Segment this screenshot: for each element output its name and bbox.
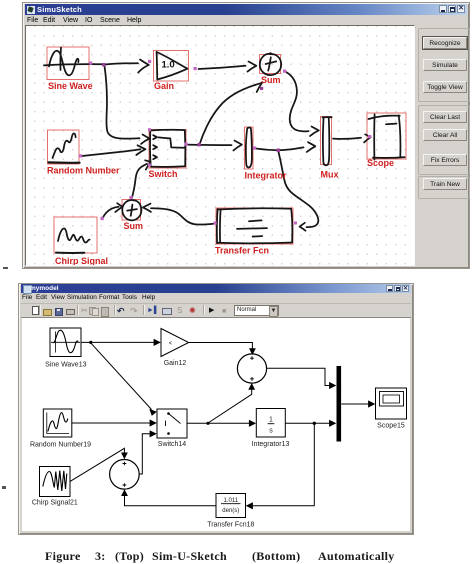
block: Random Number19 — [43, 409, 72, 437]
recognition box: Transfer Fcn — [216, 208, 293, 244]
menu bar — [25, 15, 467, 28]
sketch: Mux block — [323, 116, 332, 118]
wire: Sum (bottom) output up to Switch14 input 3 — [139, 434, 151, 474]
sketch canvas — [25, 25, 415, 266]
svg-text:Gain12: Gain12 — [164, 360, 187, 367]
toolbar icon: debug (red) — [189, 307, 199, 314]
svg-text:Gain: Gain — [154, 81, 174, 91]
toolbar icon: paste (disabled) — [101, 307, 109, 317]
block: Mux (black bar) — [337, 366, 342, 442]
wire: Mux to Scope — [333, 138, 361, 139]
svg-text:1.011: 1.011 — [224, 498, 239, 504]
title bar — [21, 284, 411, 293]
sketch: Sine Wave source block — [44, 64, 104, 65]
wire: Sum output curving down to Mux input 1 — [286, 72, 309, 131]
connection marker: Random Number output — [79, 154, 82, 157]
toolbar icon: cut (disabled) — [81, 307, 88, 314]
svg-text:Sine Wave13: Sine Wave13 — [45, 362, 86, 369]
junction on Sine Wave13 output — [89, 341, 92, 344]
toolbar icon: print — [66, 309, 75, 315]
wire: Transfer Fcn output to Sum (bottom) — [151, 208, 216, 224]
toolbar icon: new model — [32, 306, 39, 315]
wire: Sine Wave to Gain — [105, 63, 138, 64]
connection marker: Transfer Fcn output — [214, 222, 217, 225]
wire: junction diagonal to Switch14 input 1 — [91, 343, 152, 409]
svg-text:Switch14: Switch14 — [158, 441, 187, 448]
arrowhead: into Mux input 1 — [329, 382, 336, 389]
right button panel — [416, 27, 468, 267]
block: Gain12 triangle — [161, 329, 189, 357]
svg-text:Transfer Fcn18: Transfer Fcn18 — [207, 522, 254, 529]
title bar — [25, 4, 467, 15]
block: Integrator13 — [256, 409, 285, 438]
recognition box: Gain — [154, 51, 189, 82]
svg-text:s: s — [269, 428, 273, 435]
sketch: Switch block — [150, 130, 185, 167]
connection marker: junction after Sine Wave — [102, 63, 105, 66]
connection marker: Integrator output — [253, 147, 256, 150]
svg-text:Sum: Sum — [261, 75, 281, 85]
sketch: Sum block (bottom circle with plus) — [122, 200, 141, 220]
arrowhead: into Gain12 — [154, 339, 161, 346]
recognition box: Sum (top) — [260, 55, 281, 74]
sketch: Gain block (triangle with value) — [156, 52, 159, 79]
svg-text:Sine Wave: Sine Wave — [48, 81, 93, 91]
wire: Mux output to Scope15 — [341, 403, 369, 405]
svg-text:Mux: Mux — [321, 170, 339, 180]
stray margin marks from adjacent page column — [3, 267, 8, 269]
connection marker: Gain output — [194, 67, 197, 70]
wire: Sum output right then down into Mux input 1 — [267, 368, 331, 385]
svg-text:Sum: Sum — [124, 221, 144, 231]
toolbar icon: model browser — [162, 308, 172, 315]
toolbar icon: stop (disabled) — [222, 307, 230, 314]
wire: junction curving up to Sum second input — [200, 85, 256, 145]
toolbar icon: library browser — [147, 307, 157, 314]
svg-text:<: < — [169, 341, 173, 347]
toolbar icon: signal display (disabled) — [177, 307, 185, 314]
toolbar combo: simulation mode Normal — [234, 305, 279, 316]
connection marker: Sum bottom top port — [130, 196, 133, 199]
sketch: Sum block (top circle with plus) — [260, 53, 281, 75]
window: mymodel (Simulink) — [18, 283, 414, 535]
wire: Transfer Fcn18 output left then up to Sum bottom port — [125, 496, 217, 506]
arrowhead: into Sum bottom-circle bottom port (from Transfer Fcn) — [121, 489, 128, 496]
connection marker: Switch output — [185, 143, 188, 146]
block: Sine Wave13 — [50, 328, 81, 357]
toolbar icon: redo (disabled) — [130, 307, 140, 314]
block: Transfer Fcn18 — [216, 494, 246, 518]
svg-text:Transfer Fcn: Transfer Fcn — [215, 246, 269, 256]
junction after Switch14 — [206, 422, 209, 425]
wire: Switch14 output to Integrator13 — [187, 422, 250, 424]
connection marker: Sine Wave output — [89, 62, 92, 65]
sketch: Chirp Signal source block — [58, 228, 90, 242]
toolbar icon: save — [55, 308, 63, 316]
recognition box: Sum (bottom) — [122, 200, 141, 221]
wire: Integrator13 output to Mux input 2 — [285, 422, 330, 424]
junction after Integrator13 — [313, 422, 316, 425]
wire: Random Number19 to Switch14 input 2 — [72, 422, 152, 424]
recognition box: Switch — [149, 130, 186, 169]
recognition box: Mux — [321, 117, 332, 165]
toolbar — [21, 303, 411, 318]
recognition box: Sine Wave — [47, 47, 89, 80]
block: Chirp Signal21 — [40, 467, 71, 497]
svg-text:Scope: Scope — [367, 158, 394, 168]
wire: Random Number to Switch input 2 — [82, 149, 141, 156]
arrowhead: into Switch14 input 1 — [149, 409, 157, 416]
arrowhead: into Transfer Fcn18 (pointing left) — [246, 502, 253, 509]
toolbar icon: undo — [117, 307, 127, 314]
wire: Gain12 output right then down to Sum — [189, 343, 253, 350]
connection marker: junction after Integrator — [277, 149, 280, 152]
svg-text:Integrator13: Integrator13 — [252, 441, 290, 448]
recognition box: Random Number — [48, 130, 80, 164]
connection marker: junction after Switch — [198, 143, 201, 146]
wire: Gain to Sum — [199, 66, 246, 69]
window: SimuSketch application — [22, 2, 470, 269]
svg-text:den(s): den(s) — [222, 508, 239, 514]
block: Switch14 — [157, 409, 187, 438]
wire: junction diagonal up to Sum bottom input — [208, 390, 252, 424]
sketch: Random Number source block — [53, 133, 76, 158]
menu bar — [21, 293, 411, 304]
connection marker: Switch bottom-left corner — [148, 164, 151, 167]
connection marker: Sum output — [283, 70, 286, 73]
model canvas — [22, 318, 410, 531]
arrowhead: into Switch14 input 3 — [150, 430, 157, 437]
svg-text:1: 1 — [269, 417, 273, 424]
connection marker: Switch top-left corner — [148, 128, 151, 131]
svg-text:Random Number19: Random Number19 — [30, 442, 91, 449]
svg-text:Chirp Signal21: Chirp Signal21 — [32, 500, 78, 507]
arrowhead: into Integrator13 — [249, 420, 256, 427]
wire: Chirp Signal21 diagonal up then into Sum top port — [70, 448, 124, 481]
arrowhead: into Switch14 input 2 — [150, 419, 157, 426]
svg-text:1.0: 1.0 — [162, 60, 175, 71]
block: Scope15 — [376, 388, 407, 419]
recognition box: Scope — [367, 113, 406, 159]
svg-text:Chirp Signal: Chirp Signal — [55, 256, 108, 265]
toolbar icon: copy (disabled) — [89, 307, 96, 315]
wire: Chirp Signal to Sum (bottom) — [103, 207, 119, 219]
wire: junction down to Switch input 1 — [105, 66, 140, 139]
wire: junction down and left to Transfer Fcn18 input — [253, 423, 314, 506]
arrowhead: into Sum top (from Gain12) — [249, 348, 256, 355]
arrowhead: into Mux input 2 — [329, 420, 336, 427]
svg-text:Random Number: Random Number — [47, 166, 120, 176]
figure caption (cut off at page bottom) — [0, 549, 474, 561]
recognition box: Integrator — [245, 127, 254, 169]
connection marker: Transfer Fcn input — [294, 222, 297, 225]
sketch: Integrator block — [246, 127, 252, 167]
svg-text:Switch: Switch — [149, 169, 178, 179]
wire: Sum (bottom) up to Switch input 3 — [132, 164, 147, 199]
connection marker: Scope input — [368, 135, 371, 138]
toolbar icon: start simulation — [209, 307, 217, 314]
block: Sum (bottom circle) — [110, 460, 140, 490]
wire: Integrator to Mux input 2 — [256, 147, 304, 150]
wire: Sine Wave13 to Gain12 — [81, 341, 155, 343]
arrowhead: into Sum bottom-circle top port (from Chirp) — [121, 453, 128, 460]
connection marker: Sum second input — [260, 87, 263, 90]
connection marker: Gain input — [148, 60, 151, 63]
wire: Switch output to Integrator — [187, 144, 232, 147]
svg-text:Integrator: Integrator — [245, 171, 288, 181]
toolbar icon: open — [43, 309, 52, 316]
arrowhead: into Sum bottom (from Switch junction) — [248, 383, 255, 390]
sketch: Scope block — [369, 116, 400, 119]
block: Sum (top circle) — [237, 354, 266, 383]
recognition box: Chirp Signal — [54, 217, 97, 253]
connection marker: Chirp Signal output — [101, 217, 104, 220]
sketch: Transfer Fcn block — [218, 208, 292, 209]
svg-text:Scope15: Scope15 — [377, 423, 405, 430]
wire: junction after Integrator down to Transfer Fcn input — [278, 152, 318, 228]
arrowhead: into Scope15 — [368, 400, 375, 407]
